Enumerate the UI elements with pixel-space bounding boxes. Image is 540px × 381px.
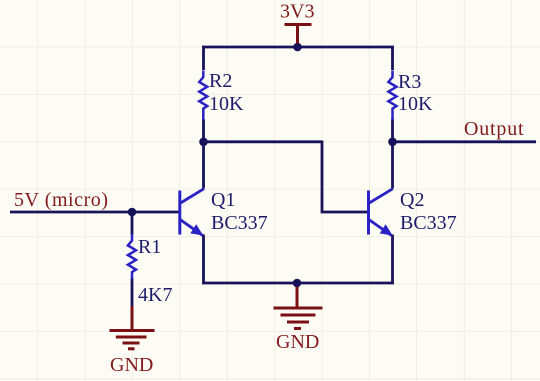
svg-text:Q2: Q2: [400, 189, 424, 211]
resistor R1: [128, 234, 136, 279]
label GND (mid): [276, 331, 319, 353]
wire R1 branch vertical upper: [131, 212, 134, 235]
label R2: [209, 70, 232, 92]
wire Output net: [393, 140, 537, 143]
wire Q2 emitter down: [391, 235, 394, 285]
svg-text:R3: R3: [398, 71, 421, 93]
wire bottom rail GND net: [202, 282, 393, 285]
label R1: [138, 236, 161, 258]
wire R1 branch vertical lower (R1 to GND): [131, 278, 134, 308]
svg-text:BC337: BC337: [211, 212, 268, 234]
wire left vertical lower (R2 to Q1 collector): [202, 119, 205, 189]
label Q2: [400, 189, 424, 211]
wire mid horizontal from R2 node: [204, 140, 323, 143]
label 3V3: [280, 1, 314, 23]
label GND (left): [110, 354, 153, 376]
junction node GND tap: [293, 279, 302, 288]
junction node R3 bottom / Output: [388, 138, 397, 147]
transistor Q1: [180, 189, 204, 236]
svg-text:R1: R1: [138, 236, 161, 258]
transistor Q2: [369, 189, 393, 236]
wire top rail 3V3 net: [202, 46, 393, 49]
label BC337 (Q2): [400, 212, 457, 234]
svg-text:R2: R2: [209, 70, 232, 92]
junction node R2 bottom: [199, 138, 208, 147]
svg-text:4K7: 4K7: [138, 284, 172, 306]
label 4K7 (R1): [138, 284, 172, 306]
label R3: [398, 71, 421, 93]
svg-text:3V3: 3V3: [280, 1, 314, 23]
wire right vertical lower (R3 to Q2 collector): [391, 119, 394, 189]
svg-text:GND: GND: [110, 354, 153, 376]
wire right vertical upper (3V3 rail to R3): [391, 46, 394, 70]
svg-text:10K: 10K: [398, 93, 433, 115]
wire Q1 emitter down: [202, 235, 205, 285]
label BC337 (Q1): [211, 212, 268, 234]
junction node input / R1: [128, 208, 137, 217]
wire left vertical upper (3V3 rail to R2): [202, 46, 205, 70]
svg-text:GND: GND: [276, 331, 319, 353]
svg-text:Output: Output: [464, 118, 524, 140]
label 10K (R3): [398, 93, 433, 115]
svg-text:10K: 10K: [209, 93, 244, 115]
label net 5V (micro): [14, 189, 109, 211]
wire to Q2 base: [321, 211, 368, 214]
junction node at 3V3 tap: [293, 43, 302, 52]
resistor R2: [199, 71, 207, 121]
svg-text:Q1: Q1: [211, 189, 235, 211]
ground symbol GND (left, under R1): [110, 306, 155, 349]
label Q1: [211, 189, 235, 211]
wire input 5V (micro) to Q1 base: [10, 211, 180, 214]
ground symbol GND (mid, under bottom rail): [274, 287, 323, 329]
label 10K (R2): [209, 93, 244, 115]
svg-text:5V (micro): 5V (micro): [14, 189, 109, 211]
svg-text:BC337: BC337: [400, 212, 457, 234]
power port 3V3: [285, 25, 312, 44]
label net Output: [464, 118, 524, 140]
resistor R3: [388, 71, 396, 121]
wire mid vertical down to Q2 base row: [321, 141, 324, 213]
